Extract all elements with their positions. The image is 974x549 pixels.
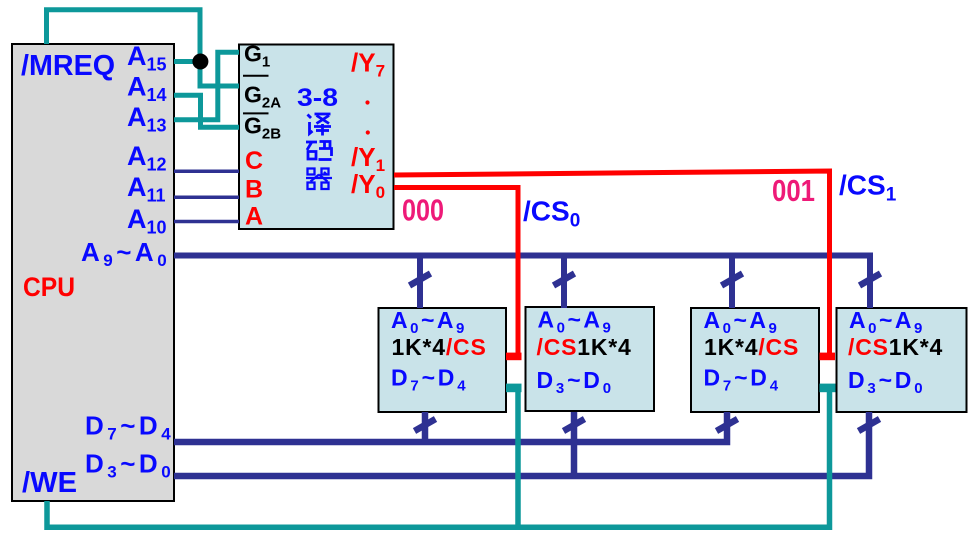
- memory chip U4 (1K*4, D7~D4): [691, 308, 819, 412]
- wire /Y1 to /CS1: [394, 171, 830, 353]
- hanzi 器 (device): [306, 169, 332, 190]
- svg-text:A9~A0: A9~A0: [81, 237, 170, 270]
- bus tick on U3 A-tap: [554, 274, 575, 286]
- /CS1 connection foot between U4 and U5: [820, 353, 836, 361]
- wire data bus D3~D0: [174, 412, 869, 476]
- svg-text:A0~A9: A0~A9: [849, 307, 925, 337]
- bus tick on U5 A-tap: [860, 274, 881, 286]
- svg-text:D7~D4: D7~D4: [391, 365, 468, 395]
- svg-text:B: B: [245, 176, 263, 204]
- ellipsis dot 1: [365, 100, 369, 104]
- memory chip U5 (1K*4, D3~D0): [837, 308, 967, 412]
- svg-text:/CS1K*4: /CS1K*4: [537, 334, 632, 360]
- svg-text:D7~D4: D7~D4: [85, 411, 174, 444]
- wire /WE net (bottom): [47, 392, 830, 527]
- memory chip U3 (1K*4, D3~D0): [526, 307, 655, 411]
- wire data bus D7~D4: [174, 412, 727, 442]
- wire A-bus tap to chip U2: [417, 256, 423, 309]
- svg-text:001: 001: [772, 173, 815, 208]
- svg-text:D3~D0: D3~D0: [537, 367, 614, 397]
- wire A14 to G2B: [174, 95, 239, 127]
- svg-text:D3~D0: D3~D0: [848, 367, 925, 397]
- bus tick on U3 D-tap: [564, 419, 585, 431]
- svg-text:3-8: 3-8: [297, 84, 338, 112]
- /WE connection foot between U2 and U3: [506, 384, 522, 393]
- svg-text:/CS0: /CS0: [523, 196, 580, 232]
- decoder U1 (3-8 decoder) box: [239, 45, 394, 230]
- junction dot at A15 node: [192, 54, 208, 70]
- wire A-bus tap to chip U4: [729, 256, 735, 309]
- svg-text:A0~A9: A0~A9: [538, 307, 614, 337]
- svg-text:C: C: [245, 147, 263, 175]
- bus tick on U2 D-tap: [415, 419, 436, 431]
- svg-text:A0~A9: A0~A9: [704, 307, 780, 337]
- hanzi 码 (code): [306, 142, 332, 160]
- wire /MREQ to node at A15: [47, 10, 240, 86]
- svg-text:/CS1: /CS1: [839, 170, 897, 206]
- ellipsis dot 2: [366, 130, 370, 134]
- svg-text:000: 000: [402, 193, 444, 228]
- wire A-bus tap to chip U3: [561, 256, 567, 309]
- wire A12 to C: [174, 170, 239, 174]
- overbar of G2B: [243, 112, 269, 114]
- svg-text:D7~D4: D7~D4: [704, 365, 781, 395]
- wire A15 stub: [174, 59, 200, 64]
- svg-text:/CS1K*4: /CS1K*4: [848, 334, 943, 360]
- wire A11 to B: [174, 196, 239, 200]
- bus tick on U5 D-tap: [859, 419, 880, 431]
- svg-text:CPU: CPU: [23, 272, 75, 302]
- wire /Y0 to /CS0: [394, 188, 518, 354]
- svg-text:/WE: /WE: [22, 467, 77, 499]
- svg-text:A: A: [245, 203, 263, 231]
- wire A10 to A: [174, 220, 239, 224]
- svg-text:/MREQ: /MREQ: [21, 50, 115, 82]
- wire A13 to G1: [174, 52, 239, 120]
- wire /WE branch between U2 and U3: [515, 392, 521, 527]
- wire D3-bus tap to chip U3: [571, 412, 578, 476]
- bus tick on U4 D-tap: [717, 419, 738, 431]
- svg-text:1K*4/CS: 1K*4/CS: [704, 334, 799, 360]
- hanzi 译 (decode): [308, 114, 332, 136]
- /CS0 connection foot between U2 and U3: [506, 353, 522, 361]
- overbar of G2A: [243, 75, 269, 77]
- bus tick on U2 A-tap: [410, 274, 431, 286]
- svg-text:D3~D0: D3~D0: [85, 449, 174, 482]
- CPU box: [12, 44, 174, 501]
- wire D7-bus tap to chip U2: [422, 412, 429, 442]
- memory chip U2 (1K*4, D7~D4): [379, 308, 507, 412]
- bus tick on U4 A-tap: [722, 274, 743, 286]
- svg-text:1K*4/CS: 1K*4/CS: [392, 334, 487, 360]
- svg-text:A0~A9: A0~A9: [391, 307, 467, 337]
- wire address bus A9~A0: [174, 256, 870, 309]
- /WE connection foot between U4 and U5: [820, 384, 836, 393]
